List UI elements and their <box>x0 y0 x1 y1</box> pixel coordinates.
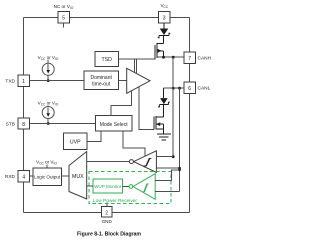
wire WUP to MUX <box>87 185 93 187</box>
MUX trapezoid <box>69 152 87 200</box>
svg-text:Mode Select: Mode Select <box>100 122 128 128</box>
pin 4 box <box>5 171 30 183</box>
wire TSD to PMOS gate <box>119 59 156 73</box>
svg-text:7: 7 <box>188 56 191 62</box>
svg-text:CANH: CANH <box>198 55 212 61</box>
node CANH wire <box>157 56 184 59</box>
bus P CANH vertical <box>172 57 175 158</box>
TSD box <box>95 52 119 67</box>
svg-text:RXD: RXD <box>5 174 16 180</box>
pin 6 box <box>184 82 211 94</box>
transistor Q1 PMOS <box>155 43 163 60</box>
svg-text:CANL: CANL <box>198 85 211 91</box>
receiver U2 <box>129 151 156 173</box>
svg-text:Logic Output: Logic Output <box>34 175 61 180</box>
transistor Q2 NMOS <box>154 116 163 130</box>
svg-text:5: 5 <box>62 16 65 22</box>
node CANL wire <box>163 87 184 90</box>
ground <box>157 129 171 140</box>
wire UVP to mode select <box>87 131 101 141</box>
svg-text:TXD: TXD <box>5 78 15 84</box>
chip boundary <box>24 18 190 213</box>
UVP box <box>64 133 88 150</box>
svg-text:WUP Monitor: WUP Monitor <box>94 184 122 189</box>
svg-text:TSD: TSD <box>102 57 113 63</box>
wire mode select to receiver <box>123 131 145 156</box>
wire logic output to MUX <box>62 175 70 177</box>
svg-text:2: 2 <box>105 210 108 216</box>
svg-text:Dominant: Dominant <box>90 75 112 81</box>
WUP monitor box <box>93 179 122 193</box>
wire receiver inputs <box>157 157 180 169</box>
svg-text:8: 8 <box>22 122 25 128</box>
low power receiver U3 green <box>122 174 155 200</box>
zener D1 <box>158 23 171 44</box>
svg-text:MUX: MUX <box>72 174 84 180</box>
caption <box>77 232 141 238</box>
pin 2 box <box>102 203 113 225</box>
wire TXD <box>29 80 84 82</box>
current source I2 <box>38 101 59 125</box>
label VCC <box>160 3 168 9</box>
svg-text:Low Power Receiver: Low Power Receiver <box>93 198 137 204</box>
logic output box <box>33 160 62 186</box>
zener D2 <box>158 88 170 117</box>
wire driver to NMOS gate <box>139 87 154 130</box>
pin 8 box <box>6 118 30 129</box>
bus Q CANL vertical <box>178 88 181 191</box>
svg-text:GND: GND <box>102 219 113 224</box>
wire RXD <box>30 175 33 177</box>
svg-text:6: 6 <box>188 86 191 92</box>
svg-text:4: 4 <box>22 175 25 181</box>
mode select box <box>96 116 133 132</box>
current source I1 <box>38 55 59 82</box>
svg-text:UVP: UVP <box>70 139 81 145</box>
svg-text:3: 3 <box>163 16 166 22</box>
wire STB <box>30 123 96 125</box>
label NC or VIO <box>54 4 74 10</box>
wire mode select to driver <box>111 91 132 116</box>
green dashed box low power receiver <box>89 171 171 204</box>
svg-text:1: 1 <box>22 79 25 85</box>
wire dominant to driver <box>119 80 127 82</box>
driver op-amp U1 <box>127 68 150 93</box>
svg-text:Figure 8-1. Block Diagram: Figure 8-1. Block Diagram <box>77 232 141 238</box>
dominant time-out box <box>84 71 119 90</box>
pin 7 box <box>184 52 212 64</box>
pin 5 box <box>58 12 70 28</box>
wire receiver to MUX <box>87 161 130 163</box>
svg-text:time-out: time-out <box>92 81 111 87</box>
wire green receiver inputs <box>155 170 179 192</box>
pin 3 box <box>159 12 171 24</box>
pin 1 box <box>5 75 29 86</box>
svg-text:STB: STB <box>6 121 15 127</box>
